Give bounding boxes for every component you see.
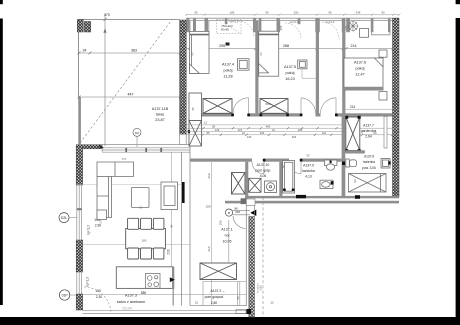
terrace diagonal dashed bbox=[80, 20, 172, 144]
svg-text:214: 214 bbox=[351, 44, 357, 48]
svg-text:10,05: 10,05 bbox=[223, 240, 232, 244]
svg-text:A137.3: A137.3 bbox=[125, 294, 137, 298]
window bay room6 bbox=[372, 21, 391, 35]
wardrobe A room4 bbox=[203, 99, 232, 114]
stool room6 bbox=[360, 29, 369, 38]
svg-text:A137.5: A137.5 bbox=[284, 65, 296, 69]
pom gosp X box bbox=[249, 178, 261, 192]
svg-text:pom gospod: pom gospod bbox=[205, 295, 224, 299]
svg-text:hp=1,3: hp=1,3 bbox=[86, 277, 90, 287]
svg-text:10: 10 bbox=[242, 131, 245, 135]
svg-text:salon z aneksem: salon z aneksem bbox=[117, 300, 146, 304]
svg-text:45: 45 bbox=[191, 107, 195, 111]
room6 label bbox=[354, 61, 366, 77]
corridor top wall segments bbox=[190, 113, 393, 116]
svg-text:łazienka: łazienka bbox=[363, 160, 375, 164]
svg-text:216: 216 bbox=[166, 249, 170, 255]
svg-text:A137.6: A137.6 bbox=[354, 61, 366, 65]
circle D2 on terrace bbox=[133, 128, 141, 147]
chairs bottom row bbox=[128, 248, 164, 259]
circle D2L bbox=[59, 213, 77, 223]
svg-text:216: 216 bbox=[207, 246, 211, 251]
top dim line bbox=[185, 14, 401, 17]
hol right wall below entrance bbox=[241, 198, 255, 317]
svg-text:np=1,3: np=1,3 bbox=[230, 20, 239, 24]
svg-text:255: 255 bbox=[122, 157, 127, 161]
svg-text:90: 90 bbox=[191, 52, 195, 56]
salon top window band bbox=[76, 145, 190, 153]
entrance door bbox=[233, 211, 251, 229]
bottom black bits bbox=[247, 309, 252, 314]
svg-text:A137.10: A137.10 bbox=[257, 163, 270, 167]
terrace dim line 447 bbox=[78, 96, 183, 99]
svg-text:D2: D2 bbox=[135, 131, 139, 135]
terrace vertical dim line bbox=[104, 14, 107, 146]
shower lazienka bbox=[283, 161, 295, 194]
svg-text:11,28: 11,28 bbox=[223, 75, 232, 79]
cooktop bbox=[145, 273, 160, 288]
svg-text:85: 85 bbox=[207, 131, 210, 135]
black door marks bottom wall bbox=[296, 195, 306, 198]
salon top wall hatch bbox=[76, 145, 102, 149]
corner black arrow bbox=[100, 145, 105, 149]
svg-text:B: B bbox=[228, 211, 230, 215]
svg-text:447: 447 bbox=[128, 93, 134, 97]
svg-text:garderoba: garderoba bbox=[361, 129, 377, 133]
svg-text:taras: taras bbox=[156, 113, 165, 117]
svg-text:370: 370 bbox=[104, 13, 110, 17]
lazienka label bbox=[302, 164, 315, 179]
svg-text:90: 90 bbox=[265, 11, 269, 15]
window bay room4 bbox=[190, 21, 209, 32]
circle 01P bbox=[59, 290, 77, 300]
bedroom dim line 295/288/214 bbox=[186, 47, 399, 50]
svg-text:80: 80 bbox=[139, 206, 143, 210]
svg-text:90: 90 bbox=[328, 11, 332, 15]
shower A137.8 bbox=[349, 174, 387, 193]
door arc room4 bbox=[233, 98, 249, 114]
svg-text:A137.1: A137.1 bbox=[221, 228, 232, 232]
plant room6 bbox=[348, 21, 359, 32]
svg-text:np=1,3: np=1,3 bbox=[290, 20, 299, 24]
svg-text:łazienka: łazienka bbox=[302, 169, 315, 173]
room4 label bbox=[222, 63, 234, 79]
terrace top-left wall stub bbox=[77, 20, 91, 33]
salon dim line horizontal bbox=[83, 244, 190, 246]
wardrobe B room5 bbox=[260, 99, 288, 114]
corridor dashed boundary bbox=[262, 197, 264, 317]
garderoba shaft bbox=[346, 117, 360, 151]
svg-text:129: 129 bbox=[215, 128, 220, 132]
room5 label bbox=[284, 65, 296, 81]
terrace dim line 383 bbox=[78, 52, 183, 55]
svg-text:90: 90 bbox=[194, 11, 198, 15]
hol labels bbox=[221, 228, 232, 244]
svg-text:249: 249 bbox=[356, 11, 361, 15]
top wall jamb stubs bbox=[187, 18, 391, 32]
wall between rooms 4 and 5 bbox=[255, 21, 258, 114]
washbasin lazienka bbox=[320, 180, 333, 188]
svg-text:pokój: pokój bbox=[285, 71, 294, 75]
toilet lazienka bbox=[324, 160, 337, 170]
svg-text:288: 288 bbox=[283, 44, 289, 48]
svg-text:4,06: 4,06 bbox=[260, 174, 267, 178]
terrace outline bbox=[79, 20, 180, 98]
A137.2 labels bbox=[205, 289, 226, 305]
wall hol/pom gosp bbox=[245, 162, 248, 204]
svg-text:pokój: pokój bbox=[223, 69, 232, 73]
salon dim line vertical bbox=[170, 153, 172, 268]
window bay room5 bbox=[256, 21, 280, 31]
nightstands room6 bbox=[379, 50, 387, 100]
strip wall left of room 6 bbox=[342, 21, 345, 114]
door arc room5 bbox=[301, 98, 316, 114]
chairs top row bbox=[128, 218, 164, 229]
svg-text:A137.11B: A137.11B bbox=[152, 107, 169, 111]
dining table bbox=[126, 229, 166, 249]
svg-text:D2L: D2L bbox=[61, 216, 67, 220]
corridor shaft west end bbox=[189, 93, 202, 146]
salon bottom lines bbox=[83, 306, 247, 314]
salon/hol divider wall bbox=[182, 117, 191, 306]
svg-text:A137.8: A137.8 bbox=[364, 155, 374, 159]
garderoba label bbox=[361, 124, 377, 139]
svg-text:np=1,3: np=1,3 bbox=[326, 20, 335, 24]
bed room6 bbox=[343, 58, 384, 90]
svg-text:90: 90 bbox=[353, 179, 357, 183]
svg-text:90: 90 bbox=[281, 165, 285, 169]
svg-text:265: 265 bbox=[279, 25, 283, 30]
svg-text:pow. 3,06: pow. 3,06 bbox=[362, 166, 376, 170]
svg-text:16,23: 16,23 bbox=[285, 77, 295, 81]
TV on wall bbox=[182, 182, 185, 203]
right exterior wall bbox=[393, 18, 400, 197]
bathroom A137.8 label bbox=[362, 155, 376, 171]
svg-text:205: 205 bbox=[99, 219, 103, 224]
svg-text:4,13: 4,13 bbox=[305, 175, 312, 179]
hol dim vertical bbox=[211, 162, 213, 305]
door swing dashed bottom-left bbox=[84, 287, 111, 314]
svg-text:2,80: 2,80 bbox=[211, 301, 218, 305]
svg-text:12: 12 bbox=[195, 301, 199, 305]
coffee table bbox=[132, 188, 150, 208]
svg-text:12,47: 12,47 bbox=[355, 73, 365, 77]
svg-text:34: 34 bbox=[83, 49, 87, 53]
door arc strip bbox=[321, 98, 337, 114]
wall pom gosp/lazienka bbox=[279, 162, 282, 197]
lazienka door arc bbox=[289, 162, 301, 174]
toilet A137.8 bbox=[346, 159, 357, 167]
svg-text:214: 214 bbox=[350, 105, 356, 109]
svg-text:hp=1,3: hp=1,3 bbox=[87, 225, 91, 235]
svg-text:90: 90 bbox=[381, 11, 385, 15]
bed room5 bbox=[259, 31, 279, 76]
salon guide line bbox=[77, 183, 181, 185]
wall garderoba/A137.8 bbox=[345, 150, 365, 153]
svg-text:pom gosp: pom gosp bbox=[256, 169, 271, 173]
dim chain ticks bbox=[201, 127, 393, 136]
chimney black mark bbox=[226, 43, 230, 46]
wall between rooms 5 and 6 bbox=[316, 21, 319, 114]
nightstand room4 bbox=[238, 59, 250, 70]
entrance arrow bbox=[250, 210, 256, 216]
svg-text:204: 204 bbox=[292, 135, 297, 139]
svg-text:180: 180 bbox=[142, 239, 147, 243]
left wall window 2 bbox=[77, 272, 82, 294]
left wall window 1 bbox=[77, 185, 82, 240]
svg-text:668: 668 bbox=[265, 102, 270, 106]
entrance circle bbox=[225, 209, 232, 216]
svg-text:A137.4: A137.4 bbox=[222, 63, 234, 67]
armchair bbox=[161, 182, 178, 210]
dim chain numbers bbox=[204, 121, 377, 139]
left exterior wall hatch segments bbox=[76, 146, 82, 185]
bed room4 bbox=[190, 31, 210, 73]
svg-text:A137.7: A137.7 bbox=[363, 124, 374, 128]
roof hatch dashed box + scribble bbox=[217, 20, 242, 34]
svg-text:01P: 01P bbox=[62, 294, 69, 298]
corridor south wall segments bbox=[190, 159, 342, 162]
terrace left lower edge bbox=[78, 97, 81, 146]
svg-text:A137.9: A137.9 bbox=[303, 164, 314, 168]
svg-text:2,64: 2,64 bbox=[365, 135, 372, 139]
pom gosp label bbox=[256, 163, 271, 178]
top exterior wall band bbox=[186, 18, 399, 20]
svg-text:155: 155 bbox=[219, 220, 223, 225]
svg-text:140: 140 bbox=[247, 135, 252, 139]
kitchen island bbox=[116, 267, 173, 289]
svg-text:12: 12 bbox=[204, 121, 207, 125]
washing machine bbox=[265, 181, 277, 193]
svg-text:12: 12 bbox=[270, 301, 274, 305]
svg-text:2,30: 2,30 bbox=[96, 295, 103, 299]
svg-text:23,87: 23,87 bbox=[155, 118, 165, 122]
svg-text:90: 90 bbox=[259, 52, 263, 56]
svg-text:159: 159 bbox=[205, 205, 210, 209]
svg-text:80x80: 80x80 bbox=[221, 28, 230, 32]
door pivot marks bbox=[231, 114, 337, 117]
svg-text:1,83: 1,83 bbox=[259, 285, 263, 291]
svg-text:110: 110 bbox=[322, 131, 327, 135]
L-sofa bbox=[97, 162, 134, 220]
svg-text:219: 219 bbox=[207, 173, 211, 178]
island arrow bbox=[170, 277, 175, 282]
svg-text:16: 16 bbox=[236, 296, 240, 300]
svg-text:383: 383 bbox=[131, 49, 137, 53]
svg-text:23,94: 23,94 bbox=[122, 307, 132, 311]
svg-text:91: 91 bbox=[272, 128, 275, 132]
svg-text:460: 460 bbox=[266, 125, 271, 129]
terrace label bbox=[152, 107, 169, 122]
A137.2 X wardrobe bbox=[200, 263, 237, 280]
hol X wardrobe upper bbox=[232, 173, 246, 195]
svg-text:254: 254 bbox=[260, 131, 265, 135]
exterior wall terrace/room A137.4 bbox=[180, 20, 187, 134]
window tick marks bbox=[125, 148, 162, 152]
svg-text:250: 250 bbox=[294, 11, 299, 15]
nightstand room5 bbox=[298, 60, 307, 69]
svg-text:185: 185 bbox=[230, 11, 235, 15]
washbasin A137.8 bbox=[381, 159, 390, 169]
svg-text:165: 165 bbox=[298, 128, 303, 132]
door A137.8/garderoba bbox=[384, 117, 387, 149]
svg-text:295: 295 bbox=[219, 44, 225, 48]
svg-text:pokój: pokój bbox=[355, 67, 364, 71]
door line above bbox=[228, 220, 230, 263]
svg-text:93: 93 bbox=[306, 154, 310, 158]
wall A137.9/A137.8 bbox=[342, 113, 346, 197]
garderoba dim bbox=[345, 108, 393, 110]
building bottom wall right wing bbox=[245, 196, 399, 198]
corridor dim chain lines bbox=[187, 125, 400, 135]
pom gosp door arc bbox=[252, 162, 264, 174]
svg-text:A137.2 ←: A137.2 ← bbox=[210, 289, 225, 293]
